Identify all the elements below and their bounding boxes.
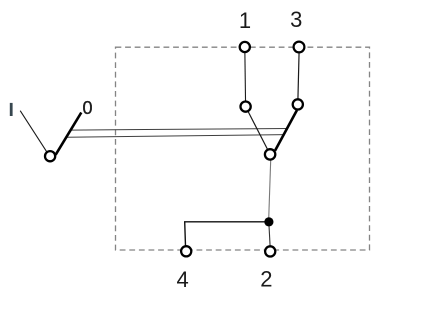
svg-text:3: 3 [290,7,302,32]
svg-text:0: 0 [82,98,92,118]
svg-text:2: 2 [260,267,272,292]
svg-text:1: 1 [239,8,251,33]
svg-text:4: 4 [176,267,188,292]
